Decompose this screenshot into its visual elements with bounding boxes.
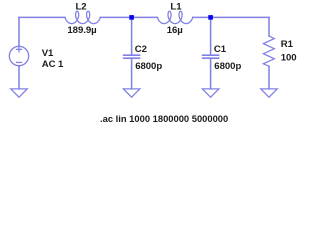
ground under R1	[261, 89, 277, 97]
ground under C2	[123, 89, 139, 97]
resistor R1 zigzag	[263, 36, 274, 66]
svg-text:189.9µ: 189.9µ	[67, 25, 96, 36]
wire top rail: V1 corner to L2 left lead	[19, 16, 65, 18]
inductor L1 coil	[157, 11, 192, 23]
wire: R1 top lead	[268, 17, 270, 36]
wire: R1 bottom lead	[268, 66, 270, 89]
wire: C1 bottom lead	[210, 58, 212, 89]
svg-text:C2: C2	[135, 44, 147, 55]
svg-text:V1: V1	[42, 48, 54, 59]
wire: V1 bottom lead	[18, 66, 20, 89]
svg-text:L1: L1	[170, 2, 182, 13]
svg-text:.ac lin 1000 1800000 5000000: .ac lin 1000 1800000 5000000	[100, 113, 228, 124]
svg-text:100: 100	[281, 52, 297, 63]
capacitor C2 plates	[124, 55, 140, 58]
svg-text:R1: R1	[281, 39, 294, 50]
capacitor C1 plates	[203, 55, 219, 58]
svg-text:L2: L2	[76, 2, 87, 13]
svg-text:C1: C1	[214, 44, 227, 55]
wire: V1 top lead	[18, 17, 20, 46]
wire: node A to L1 left lead	[132, 16, 158, 18]
wire: L2 right lead to node A	[100, 16, 131, 18]
svg-text:6800p: 6800p	[135, 61, 162, 72]
inductor L2 coil	[65, 11, 100, 23]
V1 minus sign	[17, 61, 22, 63]
node B junction	[208, 15, 213, 20]
svg-text:16µ: 16µ	[167, 25, 183, 36]
ground under C1	[202, 89, 218, 97]
wire: C2 top lead	[131, 17, 133, 55]
wire: L1 right lead to node B	[193, 16, 211, 18]
voltage source V1 circle	[9, 46, 28, 65]
V1 plus sign	[17, 47, 22, 52]
svg-text:6800p: 6800p	[214, 61, 241, 72]
wire: node B to top-right corner	[211, 16, 269, 18]
svg-text:AC 1: AC 1	[42, 59, 64, 70]
wire: C1 top lead	[210, 17, 212, 55]
node A junction	[129, 15, 134, 20]
ground under V1	[11, 89, 27, 97]
wire: C2 bottom lead	[131, 58, 133, 89]
